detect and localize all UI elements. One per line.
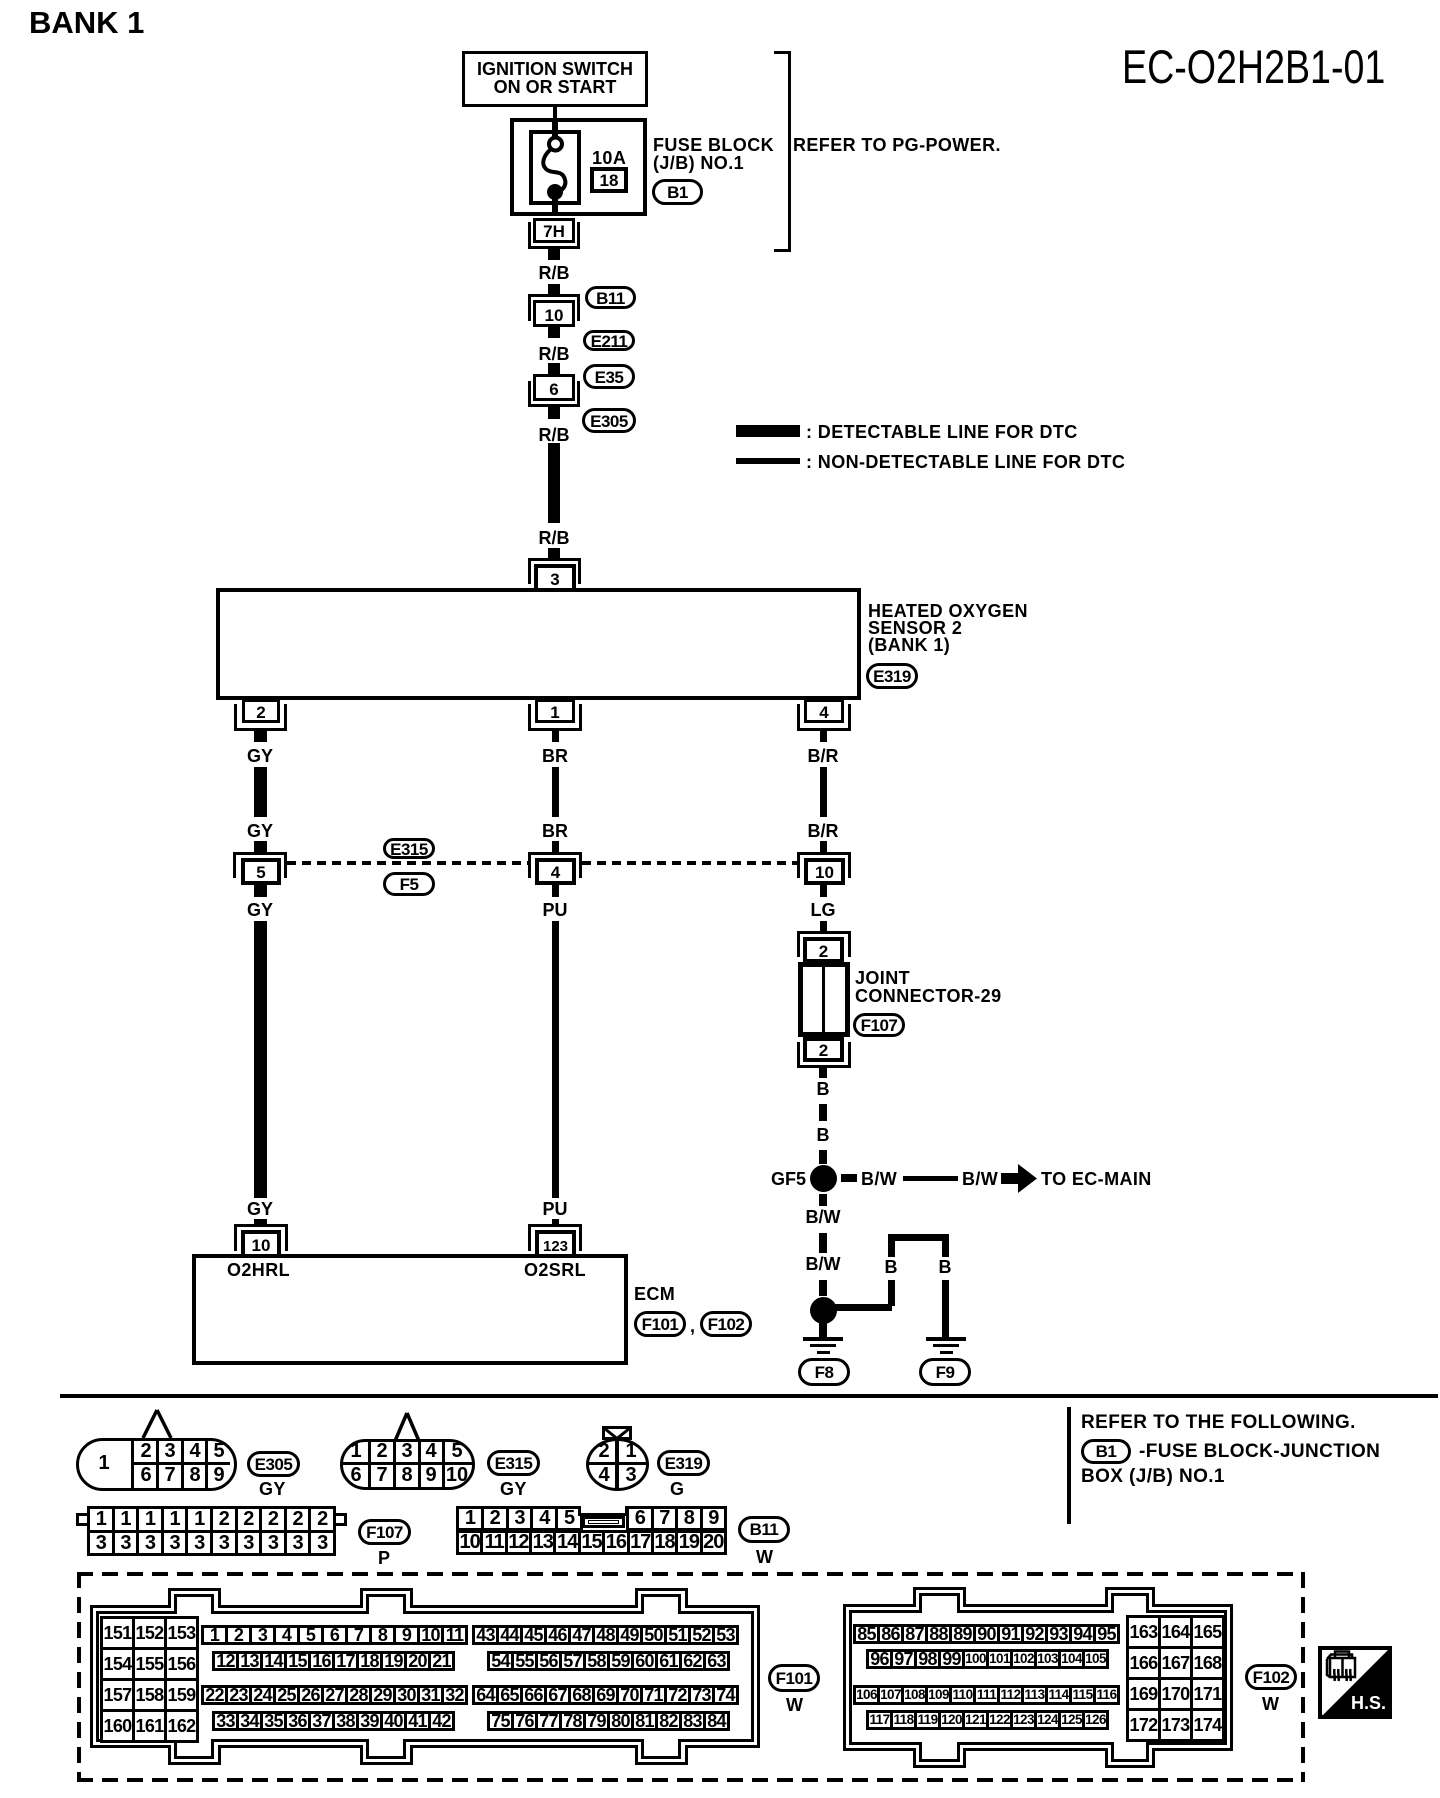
connector 4 bracket (E315/F5) bbox=[528, 852, 582, 878]
wire B/W dash below GF5 bbox=[819, 1194, 827, 1206]
wire label B left leg bbox=[861, 1258, 921, 1276]
wire label BR bbox=[525, 822, 585, 840]
joint connector body F107 bbox=[798, 962, 850, 1037]
connector ref F8 oval bbox=[798, 1358, 850, 1386]
joint connector bottom pin 2 bracket bbox=[797, 1042, 851, 1068]
connector ref B11 oval bbox=[585, 286, 636, 309]
comma bbox=[690, 1317, 695, 1335]
ground symbol F9 bbox=[926, 1337, 966, 1341]
wire stub B/R bbox=[820, 841, 827, 852]
connector face F107 body bbox=[87, 1506, 336, 1556]
dashed junction line right bbox=[582, 861, 797, 865]
F101 pin row 43-53 bbox=[472, 1625, 739, 1645]
connector face E305 triangle key bbox=[138, 1408, 178, 1440]
connector ref F9 oval bbox=[919, 1358, 971, 1386]
connector 2 bracket bbox=[234, 704, 287, 731]
connector 7H box bbox=[533, 218, 575, 243]
F101 pin row 22-32 bbox=[201, 1685, 468, 1705]
F102 pin row 96-105 bbox=[866, 1649, 1109, 1669]
right branch left leg lower bbox=[888, 1280, 895, 1306]
B11 slot bbox=[582, 1516, 625, 1528]
wire label GY bbox=[230, 747, 290, 765]
E305 grid lines bbox=[156, 1441, 159, 1488]
F107 right tab bbox=[333, 1513, 347, 1526]
wire label BR bbox=[525, 747, 585, 765]
right branch right leg upper bbox=[942, 1241, 949, 1257]
F102 pin row 85-95 bbox=[853, 1624, 1120, 1644]
sensor label bbox=[868, 602, 1028, 620]
dashed junction line left bbox=[287, 861, 528, 865]
wire label B/W bbox=[793, 1208, 853, 1226]
ECM box bbox=[192, 1254, 628, 1365]
wire label R/B bbox=[524, 264, 584, 282]
connector ref B1 oval bbox=[1081, 1439, 1131, 1464]
connector 4 box (E315/F5) bbox=[535, 858, 576, 885]
wire from node to right branch bbox=[835, 1304, 892, 1311]
legend non-detectable line bbox=[736, 458, 800, 464]
title EC-O2H2B1-01 bbox=[1122, 43, 1385, 90]
ignition switch box bbox=[462, 51, 648, 107]
joint connector top pin 2 bracket bbox=[797, 931, 851, 957]
H.S. logo bbox=[1318, 1646, 1392, 1719]
wire stub GY to ECM bbox=[254, 1219, 267, 1226]
connector face E315 triangle key bbox=[388, 1411, 428, 1443]
E305 pin 1 bbox=[86, 1454, 122, 1472]
connector ref E315 oval bbox=[383, 838, 435, 859]
F101 pin row 75-84 bbox=[487, 1711, 730, 1731]
ECM label bbox=[634, 1285, 675, 1303]
connector ref E315 oval bbox=[487, 1450, 540, 1476]
fuse box inner bbox=[529, 130, 581, 205]
refer block divider bbox=[1067, 1407, 1071, 1524]
E305 pins 6-9 bbox=[134, 1466, 158, 1484]
connector 10 box (ECM) bbox=[241, 1230, 281, 1256]
wire label GY bbox=[230, 901, 290, 919]
connector ref E35 oval bbox=[583, 364, 635, 389]
B11 top row pins 1-5 bbox=[456, 1506, 583, 1531]
B11 bottom row pins 10-20 bbox=[456, 1530, 727, 1555]
F102 color W bbox=[1262, 1695, 1279, 1713]
ground junction node bbox=[809, 1296, 838, 1325]
separator line bbox=[60, 1394, 1438, 1398]
F101 pin row 1-11 bbox=[201, 1625, 468, 1645]
B11 top row pins 6-9 bbox=[626, 1506, 727, 1531]
joint connector top pin 2 box bbox=[803, 937, 844, 963]
connector face B11 body bbox=[456, 1506, 727, 1555]
E305 pins 2-5 bbox=[134, 1442, 158, 1460]
connector ref E211 oval bbox=[583, 330, 635, 351]
wire stub PU to ECM bbox=[552, 1219, 559, 1226]
connector 5 bracket bbox=[233, 852, 287, 878]
connector face E319 circle bbox=[586, 1438, 649, 1491]
E305 color GY bbox=[259, 1480, 286, 1498]
connector ref F107 oval bbox=[853, 1013, 905, 1037]
F107 left tab bbox=[76, 1513, 90, 1526]
wire label B/R bbox=[793, 822, 853, 840]
F101 pin row 64-74 bbox=[472, 1685, 739, 1705]
wire B/W horizontal bbox=[903, 1176, 958, 1181]
connector 10 bracket (ECM) bbox=[234, 1224, 288, 1251]
connector ref B1 oval bbox=[652, 179, 703, 205]
wire stub PU bbox=[552, 885, 559, 897]
pin label O2HRL bbox=[227, 1261, 290, 1279]
fuse block label bbox=[653, 136, 774, 154]
connector 5 box bbox=[241, 858, 281, 885]
connector 10 box (E315/F5) bbox=[804, 858, 845, 885]
F107 pin grid bbox=[87, 1506, 336, 1556]
wire label R/B bbox=[524, 426, 584, 444]
connector 1 box (sensor pin) bbox=[535, 699, 575, 723]
connector face F101 outline bbox=[85, 1583, 765, 1768]
connector 2 box (sensor pin) bbox=[242, 699, 280, 723]
F102 pin row 106-116 bbox=[853, 1685, 1120, 1705]
F101 color W bbox=[786, 1696, 803, 1714]
wire B/W dash bbox=[819, 1233, 827, 1253]
connector face E319 key symbol bbox=[602, 1426, 632, 1440]
E319 cross bbox=[615, 1441, 619, 1488]
wire stub BR bbox=[552, 731, 559, 742]
E305 cavity divider bbox=[131, 1441, 134, 1488]
wire label B bbox=[793, 1080, 853, 1098]
wire stub BR bbox=[552, 841, 559, 852]
wire B/W dash bbox=[819, 1280, 827, 1296]
E319 color G bbox=[670, 1480, 684, 1498]
wire label B/W bbox=[793, 1255, 853, 1273]
connector ref B11 oval bbox=[738, 1516, 790, 1543]
wire stub GY bbox=[254, 731, 267, 742]
joint connector label bbox=[855, 969, 910, 987]
heated oxygen sensor box E319 bbox=[216, 588, 861, 700]
connector 6 box bbox=[533, 374, 575, 401]
wire label B/W bbox=[962, 1170, 998, 1188]
wire R/B long bbox=[548, 443, 560, 523]
connector 4 bracket bbox=[797, 704, 851, 731]
right branch top bar bbox=[888, 1234, 949, 1241]
F101 pin row 54-63 bbox=[487, 1651, 730, 1671]
wire B dash bbox=[819, 1104, 827, 1121]
connector ref F101 oval bbox=[634, 1311, 686, 1337]
connector 1 bracket bbox=[528, 704, 582, 731]
wire label GY bbox=[230, 822, 290, 840]
connector 7H bracket bbox=[528, 222, 580, 249]
wire stub above 6 bbox=[548, 363, 560, 374]
wire label B right leg bbox=[915, 1258, 975, 1276]
connector ref F107 oval bbox=[358, 1519, 411, 1545]
svg-text:H.S.: H.S. bbox=[1351, 1693, 1386, 1713]
bracket refer to pg-power bbox=[774, 51, 791, 252]
wire stub B/R bbox=[820, 731, 827, 742]
wire B/R bbox=[820, 767, 827, 817]
connector face F102 outline bbox=[838, 1583, 1238, 1773]
B11 notch area bbox=[580, 1506, 626, 1513]
wire label LG bbox=[793, 901, 853, 919]
E315 pins 6-10 bbox=[344, 1466, 368, 1484]
F101 pin row 33-42 bbox=[212, 1711, 455, 1731]
wire label PU bbox=[525, 901, 585, 919]
B11 color W bbox=[756, 1548, 773, 1566]
fuse block outer box B1 bbox=[510, 118, 647, 216]
F101 pin row 12-21 bbox=[212, 1651, 455, 1671]
connector 3 box bbox=[534, 564, 576, 590]
fuse symbol 10A bbox=[529, 118, 581, 216]
F107 color P bbox=[378, 1549, 390, 1567]
wire stub GY bbox=[254, 841, 267, 852]
joint connector bottom pin 2 box bbox=[803, 1037, 844, 1062]
wire label B/R bbox=[793, 747, 853, 765]
wire label B bbox=[793, 1126, 853, 1144]
title BANK 1 bbox=[29, 7, 144, 38]
wire PU long bbox=[552, 921, 559, 1198]
right branch right leg lower bbox=[942, 1280, 949, 1338]
wire stub below 7H bbox=[548, 249, 560, 260]
E315 pins 1-5 bbox=[344, 1442, 368, 1460]
connector 10 box bbox=[533, 300, 575, 327]
E315 grid lines bbox=[368, 1442, 371, 1487]
connector 3 bracket bbox=[528, 558, 581, 584]
connector 4 box (sensor pin) bbox=[804, 699, 844, 723]
connector ref E319 oval bbox=[866, 663, 918, 689]
connector ref F101 oval bbox=[768, 1664, 820, 1692]
wire B/W dash right of GF5 bbox=[841, 1174, 857, 1182]
node GF5 bbox=[809, 1164, 838, 1193]
connector 123 bracket (ECM) bbox=[528, 1224, 582, 1251]
fuse number 18 box bbox=[590, 167, 628, 193]
connector ref E305 oval bbox=[582, 408, 636, 433]
wire GY long bbox=[254, 921, 267, 1198]
refer block text bbox=[1081, 1414, 1356, 1432]
dashed box around ECM connector faces bbox=[77, 1572, 1305, 1576]
pin label O2SRL bbox=[524, 1261, 586, 1279]
connector 6 bracket bbox=[528, 381, 580, 407]
wire label PU bbox=[525, 1200, 585, 1218]
wire label GY bbox=[230, 1200, 290, 1218]
wire B dash bbox=[819, 1150, 827, 1164]
F102 grid 163-174 bbox=[1126, 1615, 1225, 1742]
legend detectable line bbox=[736, 425, 800, 437]
wire stub LG bbox=[820, 885, 827, 897]
connector face E315 stadium bbox=[340, 1439, 475, 1490]
wire BR bbox=[552, 767, 559, 817]
F101 grid 151-162 bbox=[100, 1616, 199, 1743]
connector 123 box (ECM) bbox=[535, 1230, 576, 1256]
fuse value 10A bbox=[592, 149, 626, 167]
wire stub below 10 bbox=[548, 327, 560, 338]
wire stub LG to joint connector bbox=[820, 921, 827, 931]
wire stub below 6 bbox=[548, 407, 560, 419]
wire label R/B bbox=[524, 529, 584, 547]
connector ref E305 oval bbox=[247, 1451, 300, 1477]
connector ref F5 oval bbox=[383, 872, 435, 896]
connector ref F102 oval bbox=[700, 1311, 752, 1337]
wire dash below node to ground bbox=[819, 1323, 827, 1337]
connector ref E319 oval bbox=[657, 1450, 710, 1476]
right branch left leg upper bbox=[888, 1241, 895, 1257]
connector face E305 stadium bbox=[76, 1438, 237, 1491]
connector 10 bracket bbox=[528, 294, 580, 321]
connector ref F102 oval bbox=[1245, 1664, 1297, 1690]
wire stub above 10 bbox=[548, 284, 560, 294]
wire GY bbox=[254, 767, 267, 817]
wire stub above 3 bbox=[548, 548, 560, 558]
wire label B/W bbox=[861, 1170, 897, 1188]
ground symbol F8 bbox=[803, 1337, 843, 1341]
E315 color GY bbox=[500, 1480, 527, 1498]
wire ignition to fuse block bbox=[553, 107, 557, 120]
wire label R/B bbox=[524, 345, 584, 363]
wire stub B bbox=[819, 1068, 827, 1078]
wire stub GY below 5 bbox=[254, 885, 267, 897]
arrow to EC-MAIN bbox=[1001, 1164, 1037, 1193]
connector 10 bracket (E315/F5) bbox=[797, 852, 851, 878]
F102 pin row 117-126 bbox=[866, 1710, 1109, 1730]
E319 pins bbox=[592, 1442, 616, 1460]
